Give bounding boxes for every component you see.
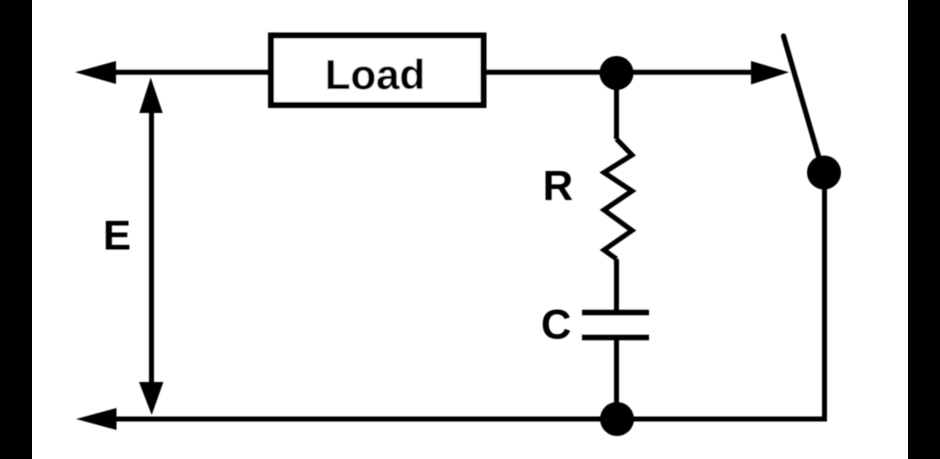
svg-text:E: E bbox=[103, 212, 131, 259]
svg-text:Load: Load bbox=[325, 51, 425, 98]
svg-text:R: R bbox=[543, 162, 573, 209]
svg-text:C: C bbox=[541, 301, 571, 348]
